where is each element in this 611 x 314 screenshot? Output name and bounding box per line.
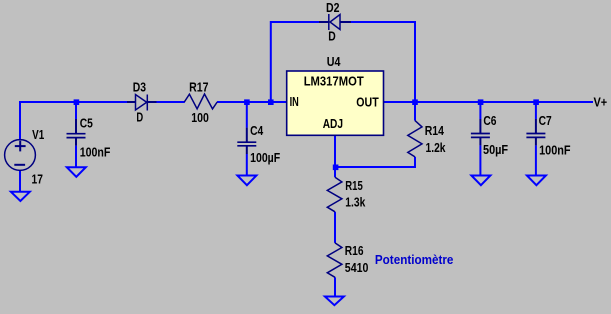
svg-text:50µF: 50µF bbox=[483, 142, 508, 157]
svg-text:100nF: 100nF bbox=[80, 145, 111, 160]
svg-text:D: D bbox=[136, 110, 143, 125]
svg-text:D2: D2 bbox=[326, 0, 340, 15]
svg-text:OUT: OUT bbox=[356, 94, 378, 109]
svg-text:U4: U4 bbox=[327, 54, 341, 69]
svg-text:C7: C7 bbox=[539, 113, 552, 128]
svg-text:ADJ: ADJ bbox=[323, 116, 343, 131]
svg-text:D: D bbox=[328, 28, 336, 43]
svg-text:17: 17 bbox=[32, 171, 43, 186]
svg-text:C4: C4 bbox=[250, 123, 264, 138]
svg-text:R17: R17 bbox=[189, 80, 208, 95]
svg-text:100nF: 100nF bbox=[539, 142, 571, 157]
svg-text:R14: R14 bbox=[425, 123, 445, 138]
svg-text:R15: R15 bbox=[345, 178, 363, 193]
svg-text:100: 100 bbox=[191, 110, 209, 125]
svg-text:C5: C5 bbox=[80, 115, 93, 130]
svg-text:1.3k: 1.3k bbox=[345, 194, 366, 209]
svg-text:V1: V1 bbox=[32, 127, 44, 142]
svg-text:D3: D3 bbox=[133, 80, 146, 95]
svg-text:C6: C6 bbox=[483, 113, 496, 128]
svg-text:IN: IN bbox=[290, 94, 299, 109]
svg-text:LM317MOT: LM317MOT bbox=[304, 74, 364, 89]
svg-text:5410: 5410 bbox=[345, 260, 369, 275]
svg-text:Potentiomètre: Potentiomètre bbox=[375, 252, 454, 267]
svg-text:100µF: 100µF bbox=[250, 150, 280, 165]
svg-text:V+: V+ bbox=[594, 95, 608, 110]
svg-text:R16: R16 bbox=[345, 243, 364, 258]
svg-text:1.2k: 1.2k bbox=[426, 140, 447, 155]
